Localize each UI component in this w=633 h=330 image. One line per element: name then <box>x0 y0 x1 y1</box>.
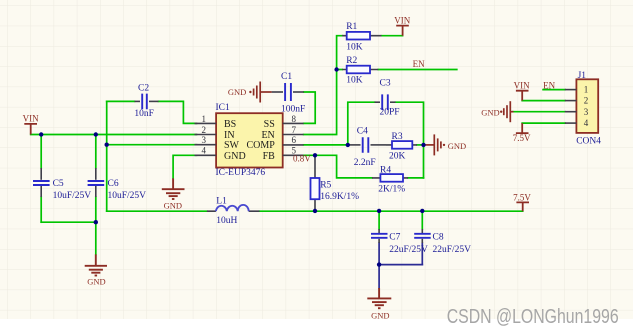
svg-text:4: 4 <box>584 118 589 128</box>
wire GND pin4 drop <box>173 155 196 178</box>
node C7-C8 gnd <box>377 262 381 266</box>
resistor R5 <box>311 155 360 211</box>
wire SW vertical riser/faller <box>106 101 108 211</box>
svg-text:10nF: 10nF <box>134 109 154 119</box>
pin names IC <box>224 119 275 162</box>
svg-text:C4: C4 <box>357 126 368 136</box>
node Vout/C7 <box>377 209 381 213</box>
pin numbers IC <box>202 114 297 156</box>
pin 3 SW lead <box>195 144 217 146</box>
svg-text:EN: EN <box>413 59 425 69</box>
svg-text:2K/1%: 2K/1% <box>378 185 405 195</box>
svg-text:R4: R4 <box>380 166 391 176</box>
svg-text:2: 2 <box>202 125 207 135</box>
pin 1 BS lead <box>195 123 304 155</box>
svg-text:7.5V: 7.5V <box>513 192 531 202</box>
svg-text:22uF/25V: 22uF/25V <box>433 245 472 255</box>
wire VIN rail to IN pin2 <box>31 134 197 136</box>
svg-text:C7: C7 <box>389 232 400 242</box>
node R1/R2 EN <box>334 67 338 71</box>
capacitor C8 <box>414 229 471 255</box>
bottom white strip <box>0 319 633 330</box>
capacitor C5 <box>33 168 91 201</box>
svg-text:C8: C8 <box>433 232 444 242</box>
wire FB pin5 <box>304 155 372 178</box>
wire COMP pin6 <box>304 144 349 146</box>
svg-text:CON4: CON4 <box>576 137 601 147</box>
svg-text:22uF/25V: 22uF/25V <box>389 245 428 255</box>
wire EN pin7 riser <box>304 36 343 135</box>
wire J1 pin4 7.5V <box>522 122 565 124</box>
svg-text:VIN: VIN <box>23 114 39 124</box>
wire SW pin3 to junction <box>107 144 197 146</box>
svg-text:C1: C1 <box>281 72 292 82</box>
wire R2 right EN net <box>378 69 457 71</box>
svg-text:J1: J1 <box>578 71 587 81</box>
svg-text:GND: GND <box>371 311 389 321</box>
wire C7-C8 ground bus navy <box>379 264 422 266</box>
wire C5 bottom branch <box>40 197 42 222</box>
pin 6 COMP lead <box>283 144 304 146</box>
svg-text:IC-EUP3476: IC-EUP3476 <box>216 168 266 178</box>
svg-text:L1: L1 <box>216 197 227 207</box>
svg-text:SW: SW <box>224 140 240 151</box>
node VIN/C6 <box>94 132 98 136</box>
wire R3 right to GND node <box>417 144 424 146</box>
svg-text:100nF: 100nF <box>281 105 305 115</box>
svg-text:GND: GND <box>448 141 466 151</box>
svg-text:BS: BS <box>224 119 236 130</box>
wire C3 right loop <box>396 102 424 178</box>
power port 7.5V at J1 <box>513 123 531 143</box>
svg-text:R1: R1 <box>346 22 357 32</box>
svg-text:C5: C5 <box>53 179 64 189</box>
power ground bars near R3 <box>424 134 467 155</box>
ground (earth) below C7/C8 <box>367 288 391 308</box>
resistor R1 <box>342 22 381 52</box>
capacitor C4 <box>349 126 387 168</box>
svg-text:2.2nF: 2.2nF <box>354 158 376 168</box>
wire gnd drop navy <box>378 265 380 288</box>
wire SS pin8 to C1 <box>304 92 316 123</box>
svg-text:10K: 10K <box>346 42 363 52</box>
node COMP/C3 <box>346 143 350 147</box>
capacitor C7 <box>371 229 428 255</box>
node Vout/C8 <box>420 209 424 213</box>
svg-text:COMP: COMP <box>246 140 275 151</box>
wire J1 pin1 EN <box>543 89 565 91</box>
svg-text:GND: GND <box>481 108 499 118</box>
svg-text:FB: FB <box>263 151 276 162</box>
svg-text:C2: C2 <box>138 84 149 94</box>
svg-text:SS: SS <box>264 119 275 130</box>
node R3/GND <box>421 143 425 147</box>
ground (earth) at IC pin4 <box>162 178 185 199</box>
svg-text:1: 1 <box>202 114 207 124</box>
svg-text:C6: C6 <box>108 179 119 189</box>
wire output row <box>260 210 523 212</box>
power port VIN at J1 <box>514 81 530 101</box>
inductor L1 <box>207 197 260 226</box>
capacitor C6 <box>88 168 147 201</box>
power port VIN (top-left) <box>23 114 39 135</box>
J1 pin numbers <box>584 85 589 129</box>
wire SW row to L1 <box>107 210 207 212</box>
svg-text:GND: GND <box>164 201 182 211</box>
pin 7 EN lead <box>283 134 304 136</box>
svg-text:4: 4 <box>202 146 207 156</box>
ground (earth) below C5/C6 <box>85 254 107 275</box>
power port VIN (top-right) <box>394 15 410 35</box>
wire C7 top <box>378 211 380 229</box>
node Vout/R5 <box>313 209 317 213</box>
power ground bars at J1 pin3 <box>481 101 513 122</box>
svg-text:3: 3 <box>584 107 589 117</box>
capacitor C3 <box>375 79 400 118</box>
resistor R2 <box>342 56 378 85</box>
svg-text:7: 7 <box>292 125 297 135</box>
svg-text:10uH: 10uH <box>216 216 237 226</box>
svg-text:1: 1 <box>584 85 589 95</box>
wire C2 left <box>107 100 135 102</box>
svg-text:3: 3 <box>202 135 207 145</box>
wire C7 bottom navy <box>378 243 380 265</box>
wire C3 left loop <box>348 102 375 145</box>
svg-text:10K: 10K <box>346 76 363 86</box>
pin 8 SS lead <box>283 122 304 124</box>
svg-text:GND: GND <box>87 276 105 286</box>
svg-text:GND: GND <box>224 151 246 162</box>
wire C6 top branch <box>95 135 97 169</box>
svg-text:CSDN @LONGhun1996: CSDN @LONGhun1996 <box>447 305 619 328</box>
svg-text:R5: R5 <box>320 180 331 190</box>
power port 7.5V (output) <box>513 192 531 211</box>
svg-text:0.8V: 0.8V <box>293 154 311 164</box>
power ground bars near C1 <box>228 82 272 103</box>
svg-text:EN: EN <box>543 81 555 91</box>
svg-text:10uF/25V: 10uF/25V <box>53 191 92 201</box>
capacitor C2 <box>134 84 158 120</box>
wire R2 left <box>337 69 343 71</box>
capacitor C1 <box>272 72 306 115</box>
svg-text:VIN: VIN <box>514 81 530 91</box>
resistor R3 <box>386 132 417 162</box>
wire ground stub below C6 <box>95 222 97 254</box>
connector J1 body <box>576 71 601 147</box>
pin 2 IN lead <box>195 134 217 136</box>
svg-text:VIN: VIN <box>394 15 410 25</box>
node C5-C6 gnd <box>94 220 98 224</box>
wire C8 top <box>421 211 423 229</box>
wire C2 right to BS pin1 <box>159 101 197 123</box>
wire C8 bottom navy <box>421 243 423 265</box>
wire R1 right to VIN stub <box>382 35 403 37</box>
svg-text:16.9K/1%: 16.9K/1% <box>320 192 359 202</box>
wire J1 pin2 VIN <box>522 100 565 102</box>
node SW/C2 <box>105 143 109 147</box>
svg-text:IC1: IC1 <box>216 103 231 113</box>
wire C5 top branch <box>40 135 42 169</box>
wire R4 right <box>408 177 424 179</box>
svg-text:2: 2 <box>584 96 589 106</box>
wire J1 pin3 GND <box>513 111 565 113</box>
wire C5-C6 ground bus <box>41 221 96 223</box>
node VIN/C5 <box>39 132 43 136</box>
svg-text:R2: R2 <box>346 56 357 66</box>
svg-text:8: 8 <box>292 114 297 124</box>
pin 5 FB lead <box>283 154 304 156</box>
svg-text:20PF: 20PF <box>380 108 400 118</box>
wire C6 bottom branch <box>95 197 97 222</box>
svg-text:C3: C3 <box>380 79 391 89</box>
svg-text:20K: 20K <box>389 152 406 162</box>
pin 4 GND lead <box>195 154 217 156</box>
svg-text:GND: GND <box>228 87 246 97</box>
svg-text:10uF/25V: 10uF/25V <box>108 191 147 201</box>
op-amp U1 body IC1 <box>216 113 283 167</box>
svg-text:7.5V: 7.5V <box>513 133 531 143</box>
navy output-cap ground wires <box>379 243 422 288</box>
node FB <box>313 153 317 157</box>
resistor R4 <box>372 166 408 195</box>
svg-text:6: 6 <box>292 135 297 145</box>
J1 pin leads <box>565 90 577 124</box>
svg-text:R3: R3 <box>392 132 403 142</box>
